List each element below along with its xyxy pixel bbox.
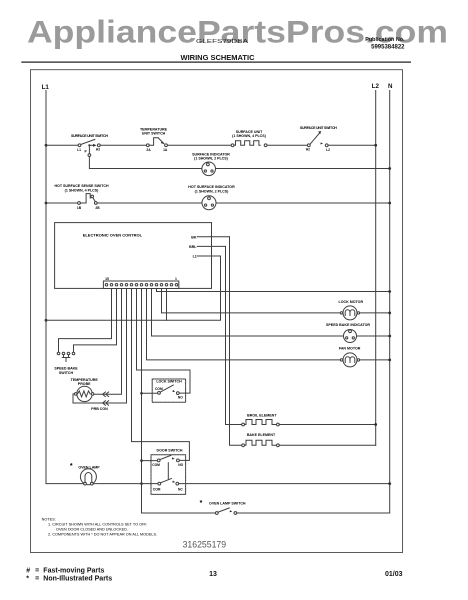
svg-text:(1 SHOWN, 2 PLCS): (1 SHOWN, 2 PLCS) bbox=[195, 189, 230, 193]
wire oven lamp rung left bbox=[46, 483, 84, 485]
wire rung3 indicator to N rail bbox=[216, 202, 390, 204]
wire rung1 to surface unit element bbox=[167, 144, 231, 146]
svg-text:H2: H2 bbox=[96, 148, 100, 152]
svg-text:BAKE ELEMENT: BAKE ELEMENT bbox=[247, 433, 276, 437]
svg-text:P: P bbox=[84, 149, 87, 153]
svg-text:(1 SHOWN, 4 PLCS): (1 SHOWN, 4 PLCS) bbox=[65, 188, 100, 192]
footer legend bbox=[26, 568, 402, 583]
svg-text:NO: NO bbox=[178, 395, 183, 399]
junction N fan motor bbox=[388, 359, 391, 362]
svg-text:L2: L2 bbox=[326, 148, 330, 152]
wire door switch NC to N rail bbox=[179, 483, 390, 485]
wire L1 bus to EOC L1 pin bbox=[46, 256, 221, 320]
svg-text:1: 1 bbox=[175, 277, 177, 281]
wire pin6 to speed bake indicator rung bbox=[152, 289, 344, 337]
switch door switch bbox=[151, 449, 186, 495]
svg-text:NOTES:: NOTES: bbox=[42, 517, 56, 521]
wire pin8 tap line to oven lamp switch bbox=[142, 289, 216, 514]
wire pin12 to probe connector upper bbox=[94, 289, 122, 395]
svg-text:13: 13 bbox=[209, 571, 217, 578]
svg-text:OVEN DOOR CLOSED AND UNLOCKED.: OVEN DOOR CLOSED AND UNLOCKED. bbox=[56, 527, 128, 531]
pin L1 output bbox=[193, 255, 221, 259]
wire N rail bbox=[389, 91, 391, 514]
svg-text:PROBE: PROBE bbox=[78, 382, 91, 386]
svg-text:L2: L2 bbox=[372, 83, 380, 90]
wire pin3 to L1 bus bbox=[166, 289, 168, 321]
wire pin9 to lock switch NO bbox=[137, 289, 191, 394]
svg-text:(1 SHOWN, 4 PLCS): (1 SHOWN, 4 PLCS) bbox=[232, 134, 267, 138]
pin BRL output bbox=[189, 245, 225, 249]
svg-text:01/03: 01/03 bbox=[385, 571, 403, 578]
svg-text:(1 SHOWN, 2 PLCS): (1 SHOWN, 2 PLCS) bbox=[194, 157, 229, 161]
svg-text:SPEED BAKE INDICATOR: SPEED BAKE INDICATOR bbox=[326, 323, 370, 327]
junction N oven lamp rung bbox=[388, 482, 391, 485]
svg-text:COM: COM bbox=[152, 463, 160, 467]
junction tap oven lamp rung bbox=[140, 482, 143, 485]
lamp oven lamp bbox=[70, 463, 100, 485]
svg-text:BRL: BRL bbox=[189, 245, 197, 249]
wire pin4 to lock motor rung bbox=[162, 289, 341, 313]
title rule bbox=[21, 61, 411, 63]
node L2 label bbox=[372, 83, 380, 90]
svg-text:LOCK SWITCH: LOCK SWITCH bbox=[156, 380, 182, 384]
svg-text:Non-Illustrated Parts: Non-Illustrated Parts bbox=[43, 576, 112, 583]
junction L1 bus at L1 rail bbox=[45, 319, 48, 322]
wire pin13 to speed bake switch terminal 4 bbox=[74, 289, 117, 353]
wire fan motor to N rail bbox=[360, 359, 390, 361]
svg-text:L1: L1 bbox=[42, 84, 50, 91]
wire rung1 switch to temperature unit switch bbox=[100, 144, 146, 146]
svg-text:H2: H2 bbox=[306, 148, 310, 152]
svg-text:COM: COM bbox=[155, 387, 163, 391]
svg-text:COM: COM bbox=[153, 487, 161, 491]
wire rung1 switch to L2 rail bbox=[328, 144, 376, 146]
junction N speed bake indicator bbox=[388, 335, 391, 338]
svg-text:WIRING SCHEMATIC: WIRING SCHEMATIC bbox=[181, 53, 256, 62]
lamp surface indicator bbox=[192, 153, 230, 176]
wire pin5 to N rail bbox=[157, 289, 390, 292]
switch temperature unit switch bbox=[140, 127, 168, 152]
svg-text:SWITCH: SWITCH bbox=[59, 371, 74, 375]
switch surface unit switch (right) bbox=[300, 126, 337, 152]
title WIRING SCHEMATIC bbox=[181, 53, 256, 62]
wire pilot drop from P terminal bbox=[88, 146, 202, 168]
node N label bbox=[388, 83, 393, 90]
svg-text:SURFACE UNIT SWITCH: SURFACE UNIT SWITCH bbox=[300, 126, 337, 130]
junction L2 rung1 bbox=[374, 144, 377, 147]
svg-text:2. COMPONENTS WITH * DO NO: 2. COMPONENTS WITH * DO NOT APPEAR ON AL… bbox=[48, 533, 157, 537]
resistor surface unit element bbox=[231, 130, 267, 147]
wire speed bake indicator to N rail bbox=[357, 335, 390, 337]
part number stamp bbox=[183, 540, 227, 550]
op-amp U1 electronic oven control box bbox=[55, 223, 212, 289]
svg-text:NC: NC bbox=[178, 487, 183, 491]
svg-text:*: * bbox=[200, 500, 203, 507]
svg-text:Publication No.: Publication No. bbox=[365, 37, 405, 43]
svg-text:L1: L1 bbox=[193, 255, 197, 259]
svg-text:=: = bbox=[35, 568, 39, 575]
switch hot surface sense switch bbox=[54, 184, 109, 210]
connector terminal strip P1 bbox=[103, 277, 178, 289]
switch lock switch bbox=[152, 379, 185, 402]
wire pin11 to probe connector lower bbox=[73, 289, 127, 404]
svg-text:N: N bbox=[388, 83, 393, 90]
junction N lock motor bbox=[388, 312, 391, 315]
svg-text:#: # bbox=[26, 568, 30, 575]
wire oven lamp to door switch COM bbox=[93, 483, 158, 485]
svg-text:5995384822: 5995384822 bbox=[371, 45, 405, 51]
wire rung1 element to surface unit switch (right) bbox=[267, 144, 307, 146]
wire rung2 indicator to N rail bbox=[216, 168, 390, 170]
junction tap lock COM bbox=[140, 392, 143, 395]
svg-text:=: = bbox=[35, 576, 39, 583]
pin BK output bbox=[191, 235, 229, 239]
svg-text:1. CIRCUIT SHOWN WITH ALL CO: 1. CIRCUIT SHOWN WITH ALL CONTROLS SET T… bbox=[48, 522, 147, 526]
wire BRL down to broil element bbox=[226, 246, 242, 424]
resistor bake element bbox=[242, 433, 280, 447]
resistor temperature probe bbox=[71, 378, 99, 402]
switch speed bake switch bbox=[54, 352, 78, 375]
switch surface unit switch (left) bbox=[71, 134, 108, 153]
junction N rung3 bbox=[388, 202, 391, 205]
svg-text:SPEED BAKE: SPEED BAKE bbox=[54, 366, 78, 370]
svg-text:2B: 2B bbox=[95, 206, 100, 210]
svg-text:*: * bbox=[70, 463, 73, 470]
svg-text:BK: BK bbox=[191, 235, 197, 239]
wire pin14 to speed bake switch terminal 1 bbox=[59, 289, 112, 353]
svg-text:*: * bbox=[26, 576, 29, 583]
border frame of schematic bbox=[31, 70, 403, 553]
resistor broil element bbox=[242, 414, 280, 426]
publication number block bbox=[365, 37, 405, 51]
wire rung3 from L1 to hot surface sense switch bbox=[46, 202, 78, 204]
svg-text:OVEN LAMP SWITCH: OVEN LAMP SWITCH bbox=[209, 502, 246, 506]
model number text bbox=[196, 39, 249, 45]
wire L2 rail bbox=[375, 91, 377, 446]
wire lock motor to N rail bbox=[360, 312, 390, 314]
svg-text:1B: 1B bbox=[77, 206, 82, 210]
junction L1 rung3 bbox=[45, 202, 48, 205]
svg-text:NO: NO bbox=[178, 463, 183, 467]
motor fan motor bbox=[339, 346, 361, 367]
wire tap to door switch COM bbox=[142, 460, 158, 462]
svg-text:316255179: 316255179 bbox=[183, 540, 227, 550]
wire tap to lock switch COM bbox=[142, 392, 158, 394]
svg-text:BROIL ELEMENT: BROIL ELEMENT bbox=[247, 414, 277, 418]
svg-text:Fast-moving Parts: Fast-moving Parts bbox=[43, 568, 104, 575]
wire pin7 to fan motor rung bbox=[147, 289, 341, 360]
svg-text:L1: L1 bbox=[77, 148, 81, 152]
motor lock motor bbox=[339, 300, 364, 320]
wire L1 rail bbox=[45, 91, 47, 484]
wire oven lamp switch to N rail bbox=[237, 512, 390, 514]
wire pin10 to door switch NO bbox=[132, 289, 190, 461]
svg-text:15: 15 bbox=[105, 277, 109, 281]
junction L1 rung1 bbox=[45, 144, 48, 147]
wire bake element to L2 rail end bbox=[279, 444, 375, 446]
junction L2 broil bbox=[374, 423, 377, 426]
watermark AppliancePartsPros.com bbox=[27, 13, 448, 49]
svg-text:PRB CON: PRB CON bbox=[91, 407, 108, 411]
junction N rung2 bbox=[388, 167, 391, 170]
svg-text:FAN MOTOR: FAN MOTOR bbox=[339, 346, 361, 350]
junction tap door COM bbox=[140, 459, 143, 462]
wire broil element to L2 rail bbox=[279, 424, 375, 426]
svg-text:2A: 2A bbox=[146, 148, 151, 152]
junction N neutral link bbox=[388, 290, 391, 293]
connector PRB CON chevrons lower bbox=[91, 401, 108, 411]
lamp speed bake indicator bbox=[326, 323, 370, 342]
svg-text:SURFACE UNIT SWITCH: SURFACE UNIT SWITCH bbox=[71, 134, 108, 138]
notes text block bbox=[42, 517, 157, 536]
svg-text:UNIT SWITCH: UNIT SWITCH bbox=[142, 131, 166, 135]
wire rung1 from L1 to surface unit switch bbox=[46, 144, 78, 146]
connector PRB CON chevrons upper bbox=[103, 392, 109, 397]
lamp hot surface indicator bbox=[188, 185, 235, 210]
svg-text:ELECTRONIC OVEN CONTROL: ELECTRONIC OVEN CONTROL bbox=[83, 232, 143, 237]
svg-text:DOOR SWITCH: DOOR SWITCH bbox=[157, 449, 183, 453]
wire rung3 switch to hot surface indicator bbox=[97, 202, 202, 204]
svg-text:GLEFS79DBA: GLEFS79DBA bbox=[196, 39, 249, 45]
svg-text:LOCK MOTOR: LOCK MOTOR bbox=[339, 300, 364, 304]
switch oven lamp switch bbox=[200, 500, 246, 514]
node L1 label bbox=[42, 84, 50, 91]
wire BK down to bake element bbox=[230, 237, 242, 445]
svg-text:1A: 1A bbox=[163, 148, 168, 152]
